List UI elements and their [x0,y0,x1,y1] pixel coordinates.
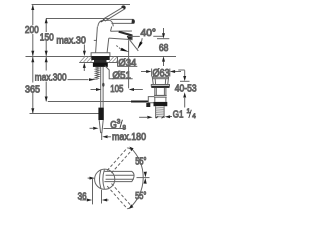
cartridge dome [98,20,113,26]
dimension line 150/max300 vertical [45,19,47,33]
dimension 105 spout projection [128,40,130,56]
plan ghost lever upper 55deg [107,148,131,173]
extension line top (lever tip level, 200 ref) [32,4,130,6]
svg-text:40-53: 40-53 [175,84,197,95]
arrow down 365 bottom [31,108,34,113]
base plinth outline [91,53,110,56]
waste nut dark [154,102,168,106]
lever paddle tip cap [132,19,135,24]
hose braided dark segment [98,108,103,120]
dimension G1 1/4 arrows [139,116,147,118]
through-deck shank dark [94,60,107,63]
svg-text:max.30: max.30 [56,35,86,46]
swivel arc [130,148,143,208]
pop-up waste: plug cup [152,77,168,84]
extension line 150 ref [46,18,110,20]
svg-text:36: 36 [78,191,87,202]
waste flange with seal [151,85,169,87]
tick 365 bottom (hose level) [30,113,103,115]
hose lines below nut [100,67,102,108]
faucet raised lever (ghost position) [103,7,124,20]
arrow up 200 top [31,5,34,10]
label G 3/8 with shelf [90,127,94,129]
svg-text:Ø34: Ø34 [118,58,136,69]
40deg shelf line [128,35,140,37]
spout top [111,30,132,32]
svg-text:3: 3 [117,119,121,126]
plan view: lever neck lens [99,170,104,189]
dimension 36 plan [88,177,91,179]
svg-text:365: 365 [25,84,40,95]
mounting nut dark [93,63,108,67]
dimension 40-53 [178,69,184,71]
40deg leader arrowhead onto stream [137,42,142,50]
arrow up 150 top [45,18,48,23]
spout tip dark fill [127,35,133,40]
label Ø34 with step leader [117,57,119,66]
svg-text:4: 4 [192,113,196,120]
spout tip face and underside [109,35,133,40]
arc arrowhead top [129,147,133,152]
dimension Ø63 [151,69,153,77]
pop-up rod coupling dark [131,101,148,103]
waste side port [148,97,154,103]
svg-text:105: 105 [110,84,124,95]
svg-text:max.180: max.180 [112,132,146,143]
lever rest reference line [137,177,150,179]
arc middle arrowhead upper (down) [144,172,147,178]
faucet body outline [96,27,98,53]
dimension 68 [157,38,169,40]
threaded stud zigzag [95,67,99,79]
stud bottom tick [93,78,98,80]
arrow down 200 at deck [31,51,34,56]
svg-text:G1: G1 [173,110,184,121]
hose nipple taper [99,120,103,133]
raised lever tip blob [121,5,126,9]
max.300 leader to stud [68,79,89,81]
hose connector nub [102,83,104,87]
stream diagonal 40 deg [129,40,138,51]
arrow up max300 below deck [45,57,48,62]
aerator flow arrowhead [120,48,129,52]
waste tailpipe threaded [156,106,165,118]
arrow up 365 below deck [31,57,34,62]
escutcheon dark band [91,56,109,60]
deck top line [26,56,177,58]
deck hatching right [109,57,118,63]
pivot nub left [94,39,97,41]
aerator flow dashes [116,46,121,50]
plan view: lever bar [104,171,134,181]
arrow down 150 deck [45,51,48,56]
svg-text:55°: 55° [135,157,146,168]
label Ø51 with step leader [105,66,133,79]
svg-text:150: 150 [40,32,54,43]
lever base shading [101,20,105,22]
spout chamfer dark [118,31,132,37]
arrow down max300 bottom [45,97,48,102]
max.30 up arrow below deck [83,66,85,71]
svg-text:max.300: max.300 [35,73,67,84]
arc middle arrowhead lower (up) [144,178,147,184]
plan view: body circle [95,169,115,189]
max.30 leader down [83,45,85,52]
plan ghost lever lower 55deg [107,184,131,209]
dimension line 200/365 vertical [32,5,34,25]
svg-text:8: 8 [123,124,127,131]
svg-text:200: 200 [25,25,39,36]
deck bottom line [79,62,117,64]
deck hatching left [80,57,94,63]
svg-text:68: 68 [159,43,169,54]
pop-up rod horizontal line [48,101,149,103]
label max.180 with arrow [101,133,103,141]
arc arrowhead bottom [129,204,133,209]
lever paddle horizontal [111,18,134,20]
svg-text:40°: 40° [141,28,157,39]
svg-text:55°: 55° [135,191,146,202]
waste body [155,88,166,96]
body right edge below spout [107,38,109,53]
